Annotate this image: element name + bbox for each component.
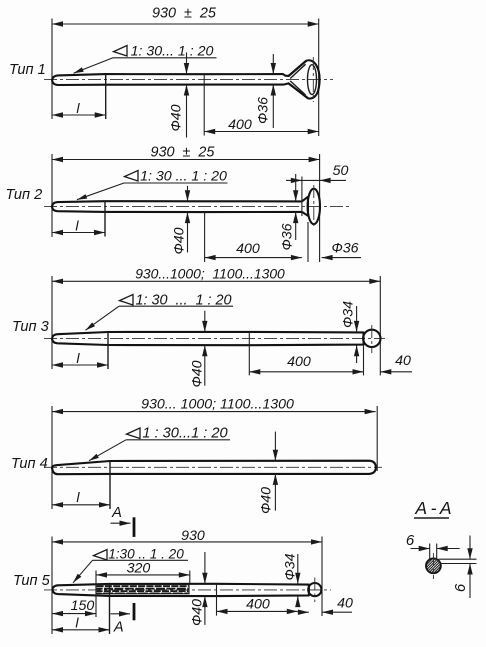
- svg-text:Ф34: Ф34: [283, 553, 299, 580]
- svg-text:1:30 .. 1 . 20: 1:30 .. 1 . 20: [108, 546, 184, 561]
- Type 2 crowbar view: [6, 145, 362, 263]
- centerline: [44, 337, 385, 339]
- svg-text:930 ± 25: 930 ± 25: [151, 145, 216, 161]
- taper end line and l extension: [105, 74, 107, 119]
- Type 4 crowbar view: [11, 397, 382, 537]
- svg-text:50: 50: [333, 163, 349, 179]
- taper end line and l extension: [107, 332, 109, 369]
- disc vertical centerline: [313, 185, 315, 228]
- centerline: [44, 466, 382, 468]
- bar outline with pointed tip and funnel head: [52, 60, 320, 98]
- taper end line and l extension: [109, 584, 111, 634]
- bar end vertical line: [301, 177, 303, 217]
- svg-text:930...1000; 1100...1300: 930...1000; 1100...1300: [135, 266, 285, 282]
- ball vertical centerline: [314, 578, 316, 603]
- head cone inner edges: [290, 64, 305, 78]
- ball head: [363, 330, 380, 347]
- dimension F40: [274, 432, 276, 461]
- svg-text:1 : 30...1 : 20: 1 : 30...1 : 20: [142, 426, 227, 442]
- svg-text:Ф40: Ф40: [172, 227, 188, 254]
- dimension F36: [272, 54, 274, 74]
- svg-text:Ф40: Ф40: [190, 360, 206, 387]
- dimension F40: [204, 552, 206, 584]
- svg-text:930 ± 25: 930 ± 25: [152, 6, 217, 22]
- svg-text:400: 400: [228, 117, 252, 133]
- svg-text:320: 320: [127, 560, 151, 576]
- dimension F40: [186, 53, 188, 75]
- svg-text:Тип 5: Тип 5: [13, 573, 51, 589]
- centerline: [44, 589, 331, 591]
- ball vertical centerline: [371, 325, 373, 353]
- dimension F34: [356, 306, 358, 332]
- ball head: [308, 583, 321, 596]
- taper label 1:30...1:20: [114, 46, 128, 57]
- svg-text:Тип 2: Тип 2: [6, 187, 43, 203]
- svg-text:6: 6: [406, 532, 415, 549]
- svg-text:6: 6: [452, 583, 469, 592]
- svg-text:1: 30... 1 : 20: 1: 30... 1 : 20: [131, 44, 214, 60]
- svg-text:Ф36: Ф36: [256, 97, 272, 124]
- taper end line and l extension: [109, 461, 111, 509]
- svg-text:A: A: [111, 505, 122, 521]
- taper label 1:30...1:20: [125, 171, 139, 182]
- svg-text:Ф36: Ф36: [331, 241, 358, 257]
- svg-text:Ф40: Ф40: [169, 104, 185, 131]
- centerline: [44, 206, 349, 208]
- svg-text:Ф34: Ф34: [341, 301, 357, 328]
- circle vertical centerline: [432, 553, 434, 579]
- svg-text:400: 400: [236, 241, 260, 257]
- svg-text:930... 1000; 1100...1300: 930... 1000; 1100...1300: [141, 397, 294, 413]
- svg-text:Ф40: Ф40: [190, 599, 206, 626]
- bar taper start extension: [216, 584, 218, 616]
- rib height extension lines: [439, 558, 477, 560]
- bar outline: [52, 197, 308, 216]
- dimension F34: [297, 554, 299, 584]
- taper label 1:30...1:20: [127, 428, 141, 439]
- taper label 1:30...1:20: [120, 295, 134, 306]
- svg-text:Тип 4: Тип 4: [11, 456, 48, 472]
- svg-text:400: 400: [246, 597, 270, 613]
- Type 3 crowbar view: [12, 266, 412, 388]
- svg-text:150: 150: [71, 598, 95, 614]
- head cone outer edges: [289, 61, 306, 76]
- flat width extension lines: [429, 544, 431, 561]
- section A-A detail: [406, 498, 477, 598]
- dimension F40: [204, 311, 206, 332]
- svg-text:Ф40: Ф40: [259, 487, 275, 514]
- svg-text:1: 30 ... 1 : 20: 1: 30 ... 1 : 20: [140, 169, 227, 185]
- svg-text:A - A: A - A: [414, 498, 451, 518]
- knurled grip section: [96, 585, 189, 594]
- svg-text:Тип 1: Тип 1: [9, 62, 46, 78]
- head vertical centerline: [312, 57, 314, 102]
- head dome inner ellipse: [308, 65, 317, 95]
- bar outline: [53, 584, 309, 596]
- bar outline with rounded right end: [52, 461, 376, 475]
- Type 5 crowbar view: [13, 528, 353, 636]
- centerline: [44, 78, 333, 80]
- svg-text:Тип 3: Тип 3: [12, 319, 49, 335]
- dimension F40: [187, 186, 189, 201]
- svg-text:400: 400: [287, 354, 311, 370]
- svg-text:40: 40: [337, 596, 353, 612]
- section circle hatched: [426, 558, 441, 573]
- svg-text:A: A: [113, 620, 124, 636]
- disc head: [308, 189, 320, 224]
- svg-text:40: 40: [395, 353, 411, 369]
- taper end line and l extension: [104, 201, 106, 236]
- dimension F36 neck: [295, 174, 297, 201]
- svg-text:Ф36: Ф36: [280, 223, 296, 250]
- Type 1 crowbar view: [9, 6, 333, 138]
- grip start extension line: [95, 571, 97, 618]
- taper label 1:30...1:20: [94, 550, 108, 561]
- bar outline: [52, 332, 364, 345]
